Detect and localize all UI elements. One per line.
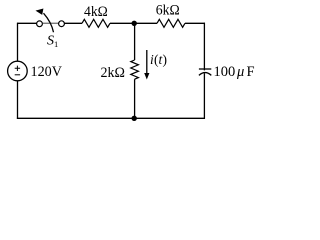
wire: 4k resistor to top node (110, 22, 157, 24)
wire: right branch lower (capacitor to bottom-right corner) (203, 73, 205, 119)
wire: right branch upper (top-right corner to capacitor) (203, 23, 205, 71)
wire: middle branch lower (2k to bottom node) (134, 79, 136, 118)
current arrow i(t) head (144, 73, 149, 80)
resistor 2k zigzag (vertical) (131, 60, 139, 79)
wire: left branch upper (top wire down to source) (17, 23, 19, 62)
wire: 6k resistor to top-right corner (185, 22, 205, 24)
wire: switch to 4k resistor (65, 22, 83, 24)
svg-text:S1: S1 (47, 33, 58, 49)
node dot bottom (junction of 2k branch and bottom rail) (132, 116, 137, 121)
svg-text:2kΩ: 2kΩ (101, 65, 126, 81)
switch S1 right contact circle (59, 21, 65, 27)
wire: left branch lower (source to bottom rail) (17, 81, 19, 119)
voltage source circle (8, 61, 28, 81)
svg-text:6kΩ: 6kΩ (156, 3, 180, 19)
wire: bottom rail (17, 117, 205, 119)
resistor 6k zigzag (157, 19, 185, 27)
svg-text:4kΩ: 4kΩ (84, 4, 108, 20)
switch S1 opening-motion curved arrow arc (44, 13, 54, 32)
node dot top (junction of 4k, 6k, 2k) (132, 21, 137, 26)
switch S1 arrowhead (36, 9, 44, 15)
capacitor top plate (flat) (199, 68, 211, 70)
switch S1 left contact circle (37, 21, 43, 27)
svg-text:): ) (163, 52, 168, 67)
svg-text:F: F (247, 64, 255, 80)
resistor 4k zigzag (82, 19, 110, 27)
source minus sign (15, 74, 20, 76)
wire: top-left segment from left branch to switch (17, 22, 36, 24)
svg-text:120V: 120V (31, 64, 63, 80)
svg-text:100: 100 (214, 64, 236, 80)
capacitor bottom plate (curved) (199, 73, 211, 76)
wire: middle branch upper (top node to 2k) (134, 23, 136, 60)
svg-text:μ: μ (236, 64, 244, 80)
current arrow i(t) line (146, 50, 148, 75)
source plus sign (15, 66, 20, 71)
wire: closed blade between switch contacts (43, 22, 59, 24)
